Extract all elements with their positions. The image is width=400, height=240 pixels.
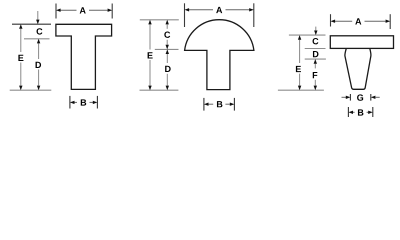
fig1 top extension line (cap top level) [12,23,51,25]
fig3 dim A line [335,20,352,22]
fig1 dim C arrow stub [37,11,39,20]
fig3 label G [357,94,363,100]
fig1 dim B arrow left [70,101,75,104]
fig2 dim A extension line right [253,3,255,27]
fig3 barb-bottom extension line [305,58,326,60]
fig1 label A [80,7,86,13]
fig2 dim B line [208,103,213,105]
fig3 dim F arrow up [314,59,317,64]
fig1 dim D arrow up [37,39,40,44]
fig3 dim G extension line left [349,94,351,101]
fig3 dim F arrow down [314,86,317,91]
fig2 dim C arrow up [166,20,169,25]
fig1 dim A line [60,9,76,11]
fig2 label A [216,7,222,13]
fig2 dim B extension line left [203,98,205,111]
fig3 label C [313,38,319,44]
fig3 dim C arrow stub [315,27,317,31]
fig1 baseline extension line [10,89,52,91]
fig2 dim A extension line left [184,3,186,27]
fig1 dim E line [20,29,22,52]
fig3 dim B arrow left [348,111,353,114]
fig3 dim E arrow down [298,86,301,91]
fig3 dim B extension line left [347,107,349,117]
fig3 dim A arrow right [386,20,391,23]
fig2 top extension line (dome top level) [140,19,179,21]
fig2 dim A arrow left [185,8,190,11]
fig2 profile outline [185,20,254,90]
fig2 dim E line [149,24,151,49]
fig3 dim B line [353,111,355,113]
fig1 label B [81,99,86,105]
fig1 dim E arrow down [19,86,22,91]
fig3 cap outline [330,36,393,49]
fig1 dim A arrow right [108,9,113,12]
fig3 label E [296,66,301,72]
fig2 dim E arrow up [148,20,151,25]
fig3 label A [355,18,361,24]
fig1 dim D arrow down [37,86,40,91]
fig1 dim B extension line left [69,96,71,109]
fig2 dim D arrow up [166,49,169,54]
fig3 dim B arrow right [368,111,373,114]
fig3 dim G outside line left [342,96,347,98]
fig2 dim D arrow down [166,86,169,91]
fig3 dim F line [314,64,316,69]
fig1 label D [36,62,42,68]
fig2 label C [164,32,170,38]
fig3 label D [313,51,319,57]
fig3 label F [313,72,318,78]
fig2 label E [148,52,153,58]
fig1 dim E arrow up [19,24,22,29]
fig2 dim C line [166,24,168,28]
fig2 label B [217,101,222,107]
fig3 dim A extension line right [389,14,391,29]
fig3 dim C arrow (down, tip at top line) [314,30,317,35]
fig3 dim G extension line right [370,94,372,101]
fig2 dim C arrow down [166,45,169,50]
fig3 dim B extension line right [372,107,374,117]
fig1 dim B line [74,101,77,103]
fig2 dim B arrow right [230,103,235,106]
fig1 dim A extension line left [55,4,57,19]
fig1 label C [37,28,43,34]
fig3 cap-bottom extension line [305,48,326,50]
fig1 dim A extension line right [111,4,113,19]
fig3 dim E line [299,40,301,63]
fig3 tang outline [345,48,371,89]
fig3 dim A arrow left [331,20,336,23]
fig2 dim D line [166,54,168,63]
fig1 dim A arrow left [56,9,61,12]
fig3 dim G arrow left (points right, tip at left ext) [346,96,351,99]
fig2 dim E arrow down [148,86,151,91]
fig1 cap-bottom extension line [24,38,50,40]
fig2 dim B extension line right [233,98,235,111]
fig3 dim E arrow up [298,35,301,40]
fig2 dim B arrow left [204,103,209,106]
fig2 label D [165,66,171,72]
fig3 label B [358,109,363,115]
fig1 dim B extension line right [96,96,98,109]
fig2 dome-base extension line [155,48,179,50]
fig3 dim A extension line left [330,14,332,26]
fig2 dim A line [189,9,213,11]
fig1 dim D line [38,43,40,59]
fig1 dim B arrow right [93,101,98,104]
fig3 dim G outside line right [375,96,380,98]
fig1 dim C arrow (down, tip at top line) [36,20,39,25]
fig1 profile outline [56,24,112,89]
fig1 label E [18,55,23,61]
fig3 baseline extension line [278,89,324,91]
fig2 dim A arrow right [249,8,254,11]
fig2 baseline extension line [140,89,179,91]
fig3 top extension line (cap top level) [289,34,326,36]
fig3 dim G arrow right (points left, tip at right ext) [371,96,376,99]
